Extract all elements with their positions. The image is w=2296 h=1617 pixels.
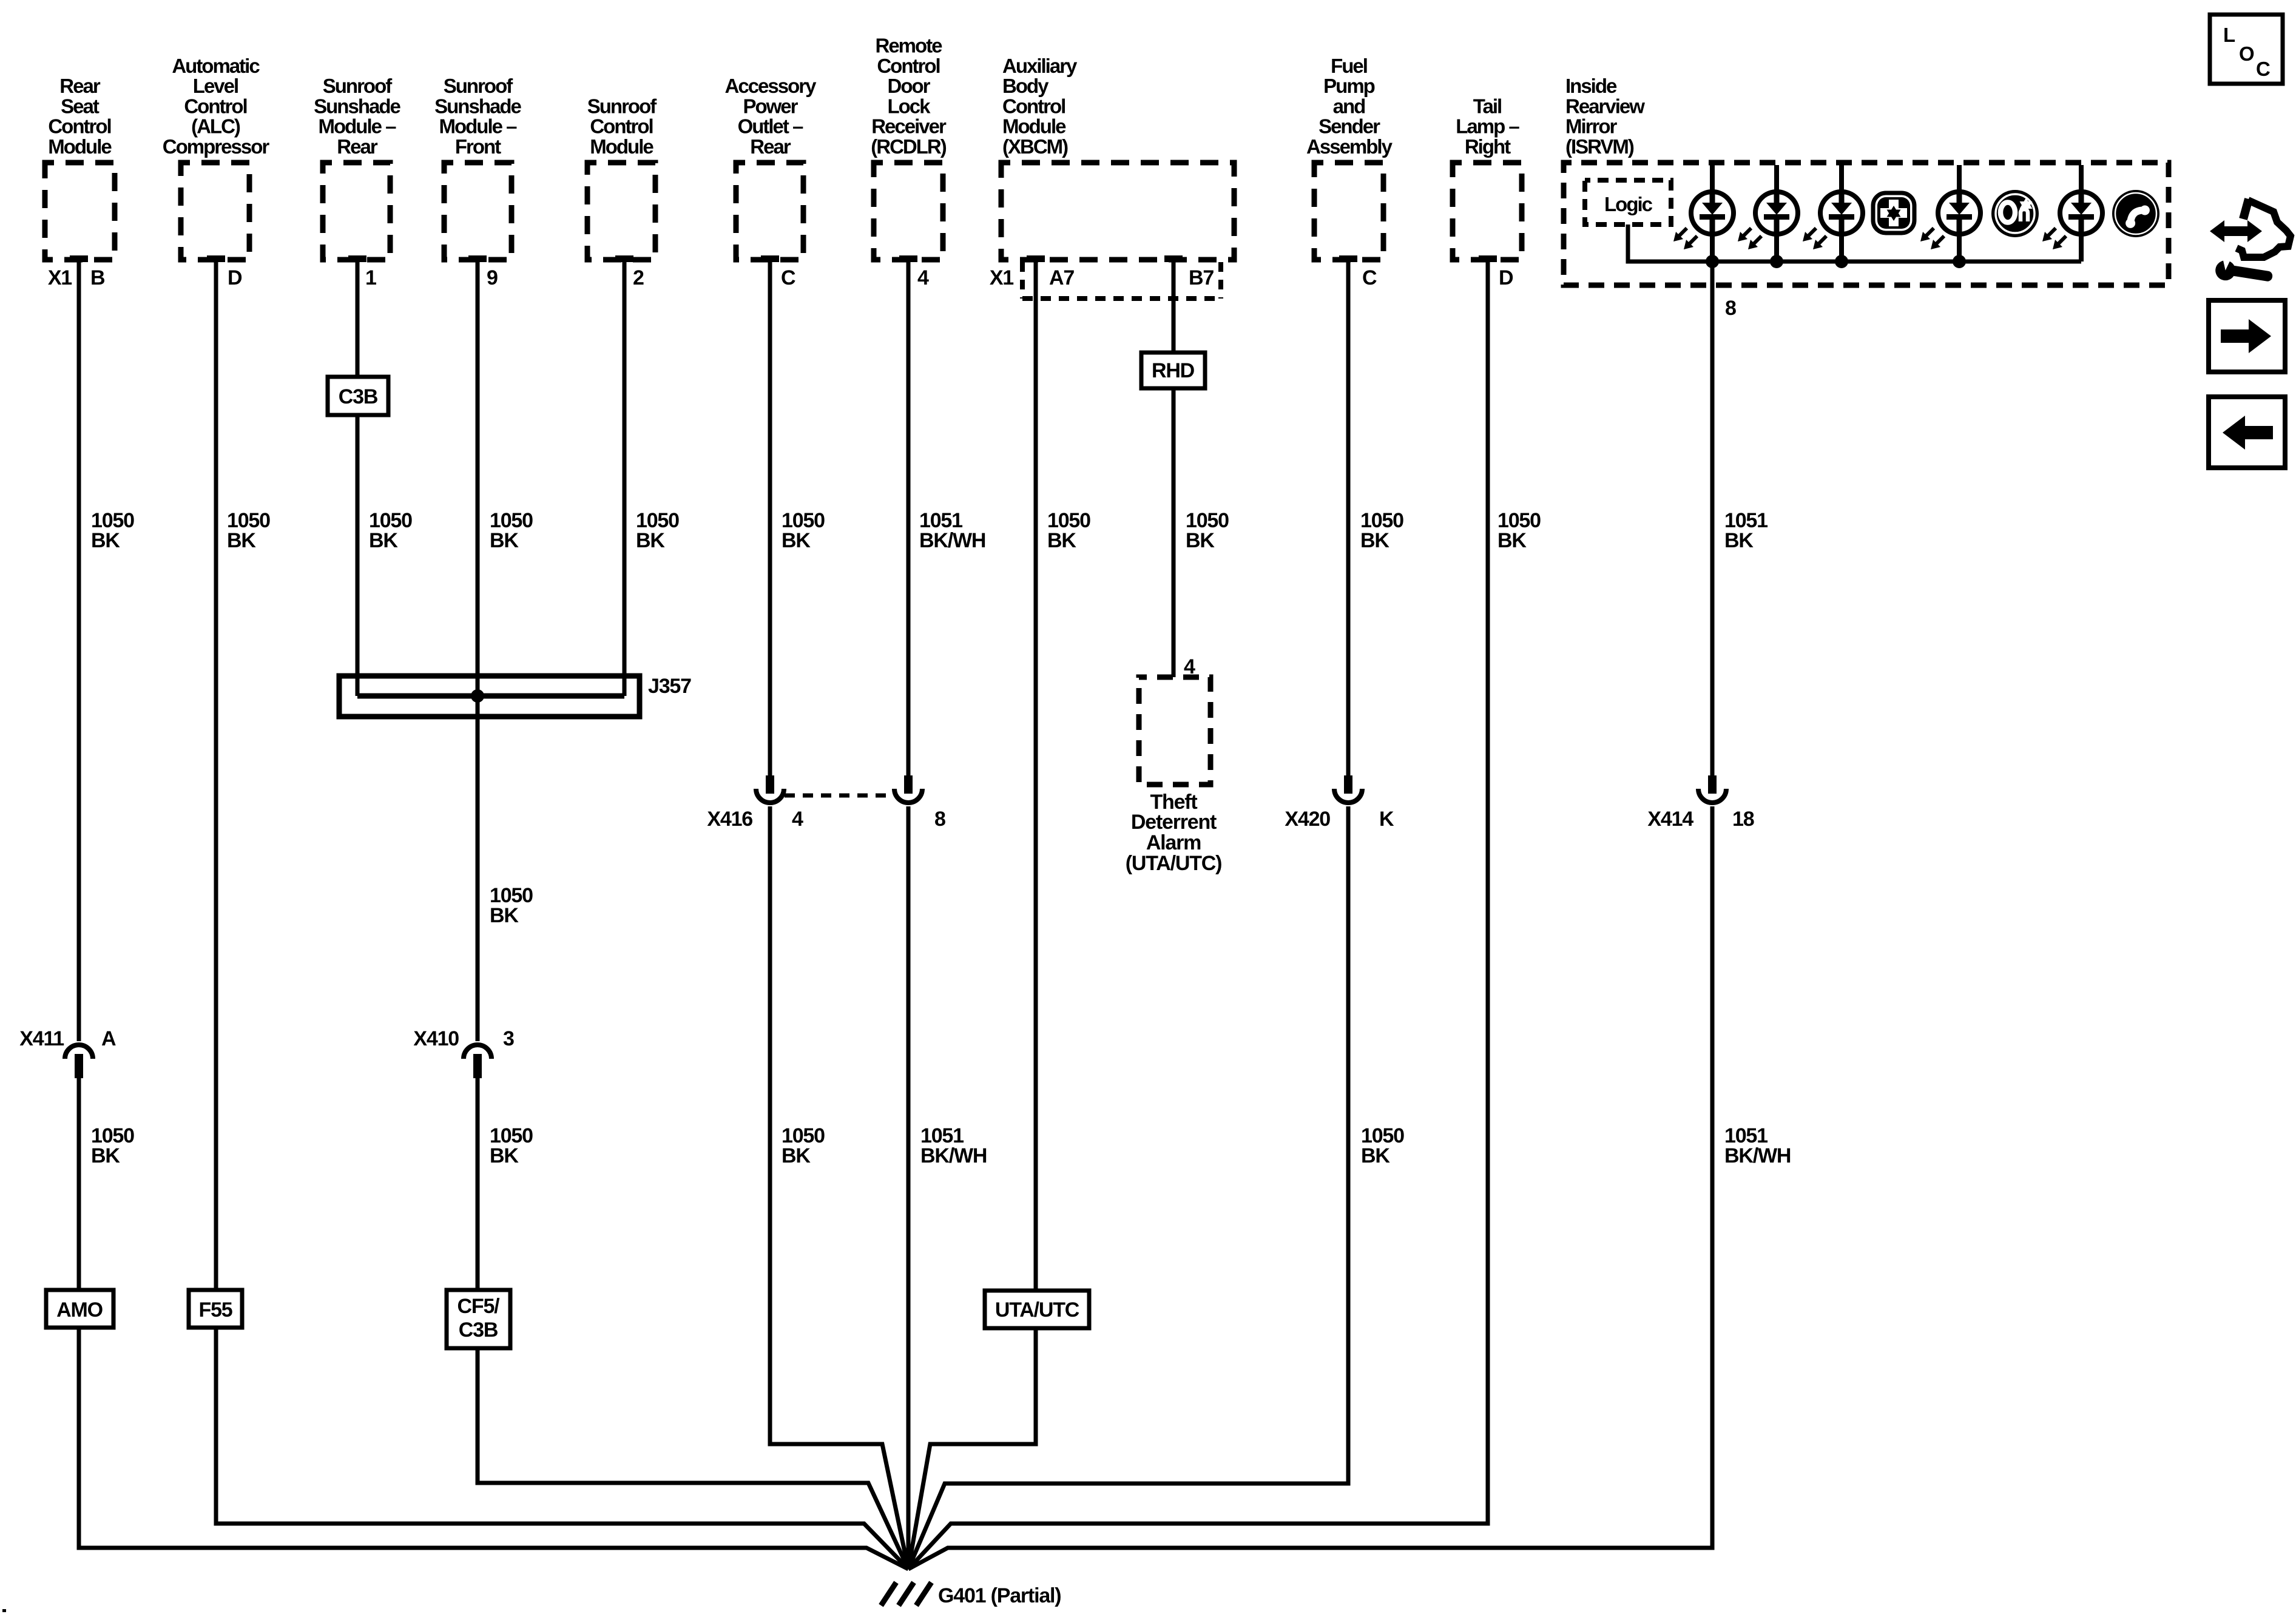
wire below X416-8 straight to ground — [907, 806, 911, 1569]
svg-text:BK: BK — [1047, 529, 1076, 552]
module XBCM box — [1001, 163, 1234, 260]
wire label 1051 BK/WH lower — [1724, 1124, 1791, 1167]
svg-text:A7: A7 — [1049, 266, 1074, 289]
svg-text:Inside: Inside — [1565, 75, 1617, 97]
wire label 1050 BK lower — [490, 1124, 533, 1167]
svg-text:Module: Module — [48, 135, 112, 158]
page artifact dot — [2, 1609, 6, 1612]
svg-text:C: C — [1362, 266, 1377, 289]
svg-text:2: 2 — [633, 266, 644, 289]
LED indicator 4 — [1920, 192, 1980, 249]
wire LED to bus x=2928 — [1770, 234, 1783, 268]
svg-text:BK/WH: BK/WH — [920, 1144, 987, 1167]
Theft Deterrent Alarm title — [1126, 791, 1222, 875]
svg-text:Tail: Tail — [1473, 95, 1501, 117]
module Sunroof Sunshade Module Front box — [444, 163, 512, 260]
XBCM X1 connector dashed outline — [1022, 262, 1221, 299]
svg-text:X410: X410 — [413, 1027, 459, 1050]
icon medical assistance (cross) — [1873, 193, 1914, 233]
wire 1050 BK fuel pump — [1346, 260, 1351, 777]
pin tick 1 — [348, 255, 366, 262]
wire LED stub x=2822 — [1710, 165, 1715, 192]
wire 1051 BK/WH RCDLR — [907, 260, 911, 777]
svg-text:Sender: Sender — [1319, 115, 1380, 138]
module RCDLR box — [874, 163, 943, 260]
splice pack J357 — [339, 675, 691, 717]
svg-text:Control: Control — [1002, 95, 1065, 117]
svg-text:4: 4 — [917, 266, 929, 289]
connector X416 cavity 8 — [894, 775, 922, 803]
wire 1051 BK ISRVM pin 8 — [1710, 262, 1715, 777]
wire below X414 to ground run — [908, 806, 1712, 1569]
svg-text:BK: BK — [490, 904, 519, 927]
svg-text:Sunroof: Sunroof — [587, 95, 657, 117]
svg-text:A: A — [101, 1027, 116, 1050]
wire from logic to LED bus — [1628, 224, 1712, 262]
svg-text:X1: X1 — [48, 266, 72, 289]
fuse F55 box — [189, 1290, 242, 1328]
connector UTA/UTC box — [985, 1291, 1089, 1328]
wire label 1050 BK lower — [91, 1124, 134, 1167]
svg-text:Door: Door — [888, 75, 931, 97]
module Sunroof Control Module box — [587, 163, 655, 260]
wire from AMO to ground run — [79, 1328, 908, 1569]
svg-text:1: 1 — [365, 266, 376, 289]
svg-text:BK: BK — [490, 1144, 519, 1167]
connector X416 cavity 4 — [756, 775, 784, 803]
svg-text:Module –: Module – — [439, 115, 517, 138]
module RCDLR title — [871, 35, 947, 158]
wire LED stub x=3035 — [1839, 165, 1844, 192]
svg-text:Sunroof: Sunroof — [323, 75, 393, 97]
wire LED stub x=3229 — [1957, 165, 1962, 192]
wire label 1051 BK/WH — [919, 509, 985, 552]
pin tick B7 — [1164, 255, 1183, 262]
svg-text:Mirror: Mirror — [1565, 115, 1618, 138]
svg-text:G401 (Partial): G401 (Partial) — [938, 1584, 1061, 1607]
svg-text:(XBCM): (XBCM) — [1002, 135, 1068, 158]
pin tick C — [1339, 255, 1357, 262]
pin tick 2 — [615, 255, 633, 262]
body repair icon (panel, double arrow, wrench) — [2210, 199, 2291, 288]
svg-text:Rear: Rear — [337, 135, 378, 158]
svg-text:O: O — [2239, 42, 2254, 65]
wire label 1051 BK/WH lower — [920, 1124, 987, 1167]
svg-text:Module –: Module – — [318, 115, 396, 138]
svg-text:X416: X416 — [707, 808, 752, 831]
wire label 1050 BK lower — [1361, 1124, 1404, 1167]
svg-text:BK: BK — [91, 1144, 120, 1167]
svg-text:Body: Body — [1002, 75, 1049, 97]
wire from CF5/C3B to ground run — [478, 1348, 908, 1569]
module Tail Lamp Right title — [1456, 95, 1519, 158]
svg-text:Module: Module — [590, 135, 653, 158]
wire 1050 BK ALC compressor — [214, 260, 218, 1290]
ISRVM logic block — [1585, 180, 1671, 224]
wire LED to bus x=2822 — [1706, 234, 1719, 268]
wire LED to bus x=3035 — [1835, 234, 1848, 268]
svg-text:AMO: AMO — [56, 1298, 103, 1322]
module ALC Compressor box — [181, 163, 249, 260]
svg-text:X411: X411 — [19, 1027, 64, 1050]
svg-text:4: 4 — [792, 808, 803, 831]
svg-text:F55: F55 — [199, 1298, 232, 1322]
svg-text:and: and — [1333, 95, 1365, 117]
svg-text:X1: X1 — [990, 266, 1013, 289]
wire label 1050 BK — [91, 509, 134, 552]
wire C3B to J357 — [356, 415, 360, 696]
wire 1050 BK sunroof sunshade rear to C3B — [356, 260, 360, 377]
wire below X416-4 — [770, 806, 908, 1569]
svg-text:Control: Control — [48, 115, 110, 138]
svg-text:Accessory: Accessory — [725, 75, 817, 97]
svg-text:Seat: Seat — [61, 95, 100, 117]
svg-text:(ALC): (ALC) — [191, 115, 240, 138]
svg-text:Receiver: Receiver — [871, 115, 947, 138]
svg-text:D: D — [1499, 266, 1513, 289]
ISRVM LED bus wire — [1712, 260, 2081, 264]
wire XBCM B7 to RHD — [1172, 259, 1176, 353]
svg-text:BK: BK — [227, 529, 256, 552]
icon phone — [2112, 190, 2159, 237]
svg-text:Level: Level — [193, 75, 238, 97]
module Accessory Power Outlet Rear title — [725, 75, 817, 158]
wire LED7 to bus corner — [2079, 234, 2084, 262]
module Sunroof Sunshade Module Rear box — [323, 163, 390, 260]
legend arrow left box — [2209, 397, 2285, 468]
option box RHD — [1141, 353, 1205, 388]
LED indicator 2 — [1738, 192, 1798, 249]
svg-text:9: 9 — [487, 266, 498, 289]
svg-text:Lock: Lock — [887, 95, 931, 117]
wire label 1050 BK — [636, 509, 679, 552]
svg-text:Rear: Rear — [59, 75, 101, 97]
svg-text:BK: BK — [782, 1144, 811, 1167]
wire label 1050 BK — [227, 509, 270, 552]
ground label G401 (Partial) — [938, 1584, 1061, 1607]
ISRVM pin 8 label — [1725, 297, 1736, 320]
wire label 1050 BK — [1497, 509, 1541, 552]
svg-text:Assembly: Assembly — [1306, 135, 1393, 158]
legend arrow right box — [2209, 300, 2285, 372]
wire 1050 BK sunroof control module to J357 — [623, 260, 627, 696]
module Rear Seat Control Module box — [45, 163, 115, 260]
svg-text:8: 8 — [934, 808, 945, 831]
svg-text:Front: Front — [455, 135, 501, 158]
svg-text:Logic: Logic — [1604, 193, 1653, 215]
module Fuel Pump and Sender Assembly box — [1314, 163, 1383, 260]
svg-text:Deterrent: Deterrent — [1131, 811, 1217, 834]
svg-text:BK: BK — [1361, 1144, 1390, 1167]
pin tick 4 — [899, 255, 917, 262]
wire label 1050 BK — [1360, 509, 1403, 552]
LOC box — [2210, 15, 2283, 84]
svg-text:C: C — [2256, 58, 2270, 80]
module Sunroof Control Module title — [587, 95, 657, 158]
connector C3B box — [328, 377, 388, 415]
svg-text:BK: BK — [1497, 529, 1527, 552]
svg-text:B7: B7 — [1189, 266, 1214, 289]
svg-text:Sunroof: Sunroof — [444, 75, 513, 97]
svg-text:Right: Right — [1465, 135, 1511, 158]
svg-text:BK: BK — [1360, 529, 1389, 552]
svg-text:Rear: Rear — [750, 135, 791, 158]
svg-text:Rearview: Rearview — [1565, 95, 1645, 117]
svg-text:Compressor: Compressor — [163, 135, 270, 158]
svg-text:Module: Module — [1002, 115, 1066, 138]
icon OnStar — [1991, 190, 2039, 237]
module ISRVM title — [1565, 75, 1645, 158]
svg-text:Sunshade: Sunshade — [314, 95, 400, 117]
svg-text:BK: BK — [636, 529, 665, 552]
svg-text:BK: BK — [782, 529, 811, 552]
svg-text:L: L — [2223, 24, 2235, 46]
svg-text:Automatic: Automatic — [172, 55, 260, 77]
module Fuel Pump and Sender Assembly title — [1306, 55, 1393, 158]
pin tick A7 — [1027, 255, 1045, 262]
wire label 1050 BK — [490, 509, 533, 552]
svg-text:Alarm: Alarm — [1146, 831, 1201, 854]
wire label 1050 BK mid (sunroof front) — [490, 884, 533, 927]
wire 1050 BK XBCM A7 — [1034, 260, 1038, 1291]
wire label 1051 BK — [1724, 509, 1768, 552]
svg-text:18: 18 — [1732, 808, 1754, 831]
theft deterrent alarm pin 4 label — [1184, 655, 1195, 678]
module Sunroof Sunshade Module Rear title — [314, 75, 400, 158]
pin tick B — [70, 255, 88, 262]
wire 1050 BK sunroof sunshade front — [476, 260, 480, 1041]
svg-text:B: B — [90, 266, 105, 289]
pin tick 9 — [468, 255, 487, 262]
module Accessory Power Outlet Rear box — [736, 163, 803, 260]
svg-text:3: 3 — [503, 1027, 514, 1050]
svg-text:BK/WH: BK/WH — [1724, 1144, 1791, 1167]
module Inside Rearview Mirror (ISRVM) box — [1564, 163, 2169, 285]
wire LED to bus x=3229 — [1953, 234, 1966, 268]
wire 1050 BK below X411 to AMO — [77, 1078, 81, 1290]
LED indicator 5 — [2042, 192, 2102, 249]
svg-text:C: C — [781, 266, 795, 289]
svg-text:UTA/UTC: UTA/UTC — [995, 1298, 1079, 1322]
svg-text:Lamp –: Lamp – — [1456, 115, 1519, 138]
connector labels X411 row — [19, 1027, 514, 1050]
svg-text:BK: BK — [1186, 529, 1215, 552]
wire 1050 BK RHD to theft deterrent alarm — [1172, 388, 1176, 677]
svg-text:BK: BK — [369, 529, 398, 552]
svg-text:(UTA/UTC): (UTA/UTC) — [1126, 852, 1222, 875]
svg-text:C3B: C3B — [459, 1318, 498, 1342]
svg-text:Sunshade: Sunshade — [434, 95, 521, 117]
LED indicator 3 — [1803, 192, 1863, 249]
wire 1050 BK below X410 to CF5/C3B — [476, 1078, 480, 1290]
wire label 1050 BK — [369, 509, 412, 552]
wire below X420 to ground run — [908, 806, 1348, 1569]
svg-text:CF5/: CF5/ — [458, 1295, 501, 1318]
module Tail Lamp Right box — [1453, 163, 1522, 260]
wire LED stub x=3430 — [2079, 165, 2084, 192]
svg-text:Auxiliary: Auxiliary — [1002, 55, 1078, 77]
wire label 1050 BK — [1186, 509, 1229, 552]
LED indicator 1 — [1673, 192, 1734, 249]
svg-text:Pump: Pump — [1323, 75, 1375, 97]
svg-text:BK: BK — [91, 529, 120, 552]
module Sunroof Sunshade Module Front title — [434, 75, 521, 158]
wire 1050 BK accessory power outlet — [768, 260, 772, 777]
svg-text:X420: X420 — [1285, 808, 1330, 831]
wire label 1050 BK lower — [782, 1124, 825, 1167]
svg-text:D: D — [228, 266, 242, 289]
svg-text:Remote: Remote — [875, 35, 942, 57]
module Rear Seat Control Module title — [48, 75, 112, 158]
svg-text:Power: Power — [743, 95, 798, 117]
connector labels X416/X420/X414 row — [707, 808, 1754, 831]
svg-text:BK: BK — [490, 529, 519, 552]
svg-text:RHD: RHD — [1152, 359, 1195, 382]
svg-text:Control: Control — [877, 55, 939, 77]
wire 1050 BK rear seat control module — [77, 260, 81, 1041]
svg-text:J357: J357 — [648, 675, 691, 698]
svg-text:Control: Control — [590, 115, 652, 138]
pin tick C — [761, 255, 779, 262]
connector X410 — [464, 1045, 491, 1078]
svg-text:(RCDLR): (RCDLR) — [871, 135, 946, 158]
svg-text:K: K — [1379, 808, 1394, 831]
wire LED stub x=2928 — [1774, 165, 1779, 192]
svg-text:BK: BK — [1724, 529, 1754, 552]
fuse AMO box — [46, 1290, 113, 1328]
svg-text:Outlet –: Outlet – — [738, 115, 803, 138]
X416 pair dashed link — [785, 794, 894, 798]
connector X420 — [1334, 775, 1362, 803]
pin labels row — [48, 266, 1513, 289]
svg-text:X414: X414 — [1647, 808, 1693, 831]
svg-text:BK/WH: BK/WH — [919, 529, 985, 552]
pin tick D — [207, 255, 225, 262]
wire label 1050 BK — [782, 509, 825, 552]
wire label 1050 BK — [1047, 509, 1090, 552]
module ALC Compressor title — [163, 55, 270, 158]
wire from F55 to ground run — [216, 1328, 908, 1569]
svg-text:(ISRVM): (ISRVM) — [1565, 135, 1634, 158]
svg-text:C3B: C3B — [339, 385, 378, 408]
svg-text:Fuel: Fuel — [1331, 55, 1367, 77]
pin tick D — [1479, 255, 1497, 262]
module XBCM title — [1002, 55, 1078, 158]
module Theft Deterrent Alarm box — [1139, 677, 1210, 785]
connector X414 — [1698, 775, 1726, 803]
wire 1050 BK tail lamp right — [908, 260, 1488, 1569]
connector CF5/C3B box — [447, 1290, 510, 1348]
svg-text:Control: Control — [184, 95, 246, 117]
ground G401 symbol — [881, 1582, 931, 1605]
wire below UTA/UTC to ground run — [908, 1328, 1036, 1569]
connector X411 — [65, 1045, 93, 1078]
svg-text:8: 8 — [1725, 297, 1736, 320]
